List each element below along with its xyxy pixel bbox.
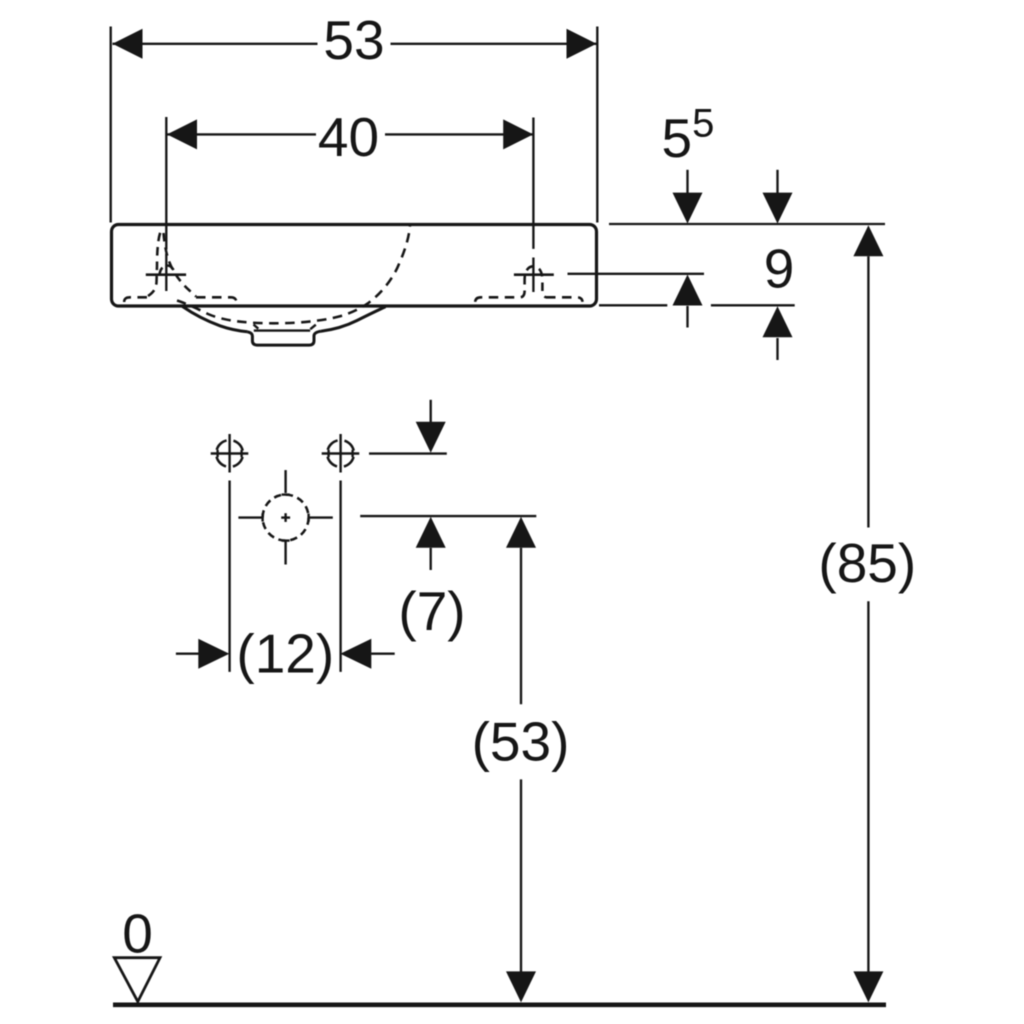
basin underside solid bulge right [321,307,386,331]
drain hole center cross [281,513,290,522]
dim 53f bottom arrow [506,971,536,1002]
drain hole centerline right arm [309,514,333,522]
label 0 datum [122,902,153,964]
dim 7 down arrow [416,400,446,453]
left wall tap hole crosshair [211,434,249,473]
extension line left of dim 53 [110,27,112,223]
svg-text:55: 55 [662,102,715,170]
dim 7 top reference line [369,452,447,454]
drain hole centerline top arm [282,470,290,495]
dim 5.5 lower arrow [673,275,703,328]
drain hole centerline left arm [238,514,262,522]
dim 7 up arrow [416,517,446,570]
dimension line 53 [113,43,597,45]
label (85) [818,532,916,594]
left deck dashed line [124,297,237,303]
label 9 [764,238,795,300]
drain right dashed wall [310,325,316,330]
drain outline [247,331,321,345]
extension line left of dim 40 / left tap centerline [165,117,167,291]
right wall tap hole crosshair [322,434,360,473]
reference line top of basin (right side) [609,223,885,225]
right tap hole cross [514,273,554,276]
label 53 [323,9,384,71]
label 40 [318,106,379,168]
arrowhead left of dim 40 [167,119,197,149]
right deck dashed line [475,297,582,302]
svg-text:0: 0 [122,902,153,964]
arrowhead right of dim 53 [567,29,597,59]
dim 9 lower arrow [763,306,793,360]
label 5.5 [662,102,715,170]
dim 53f vertical line [520,548,522,972]
reference line tap deck height 5.5 [568,273,705,275]
basin interior dashed curve [177,225,410,324]
reference line bottom of basin (right side) [599,304,795,306]
label (7) [398,580,465,642]
label (53) [472,711,570,773]
drain rim line [254,329,310,331]
arrowhead left of dim 53 [113,29,143,59]
dim 5.5 upper arrow [673,170,703,224]
arrowhead right of dim 40 [503,119,533,149]
dim 12 right-pointing arrow [198,639,229,669]
svg-text:9: 9 [764,238,795,300]
drain left dashed wall [254,325,259,329]
left faucet dashed outline spout [164,233,197,297]
dim 85 vertical line [867,256,869,972]
dimension line 40 [167,133,533,135]
basin underside solid bulge left [183,307,248,332]
svg-text:53: 53 [323,9,384,71]
floor line [113,1002,886,1007]
dim 85 top arrow [853,225,883,256]
washbasin body outline [112,225,597,307]
datum triangle [114,958,160,1002]
dim 85 bottom arrow [853,971,883,1002]
label (12) [236,623,334,685]
extension line below left crosshair [228,481,230,672]
left faucet dashed arch [160,266,175,276]
svg-text:(53): (53) [472,711,570,773]
dim 12 left-pointing arrow [340,639,371,669]
dim 7 bottom reference line [360,515,536,517]
extension line below right crosshair [339,481,341,672]
svg-text:(7): (7) [398,580,465,642]
svg-text:40: 40 [318,106,379,168]
left tap hole cross [146,273,186,276]
svg-text:(12): (12) [236,623,334,685]
extension line right of dim 53 [596,27,598,223]
right tap dashed arch [521,266,546,297]
dim 53f up arrow [506,517,536,548]
left faucet dashed outline back edge [148,231,161,297]
extension line right of dim 40 / right tap centerline [532,118,534,293]
dim 12 dimension line [176,653,395,655]
drain hole centerline bottom arm [282,541,290,565]
dim 9 upper arrow [763,170,793,224]
svg-text:(85): (85) [818,532,916,594]
drain hole dashed circle [263,495,309,541]
